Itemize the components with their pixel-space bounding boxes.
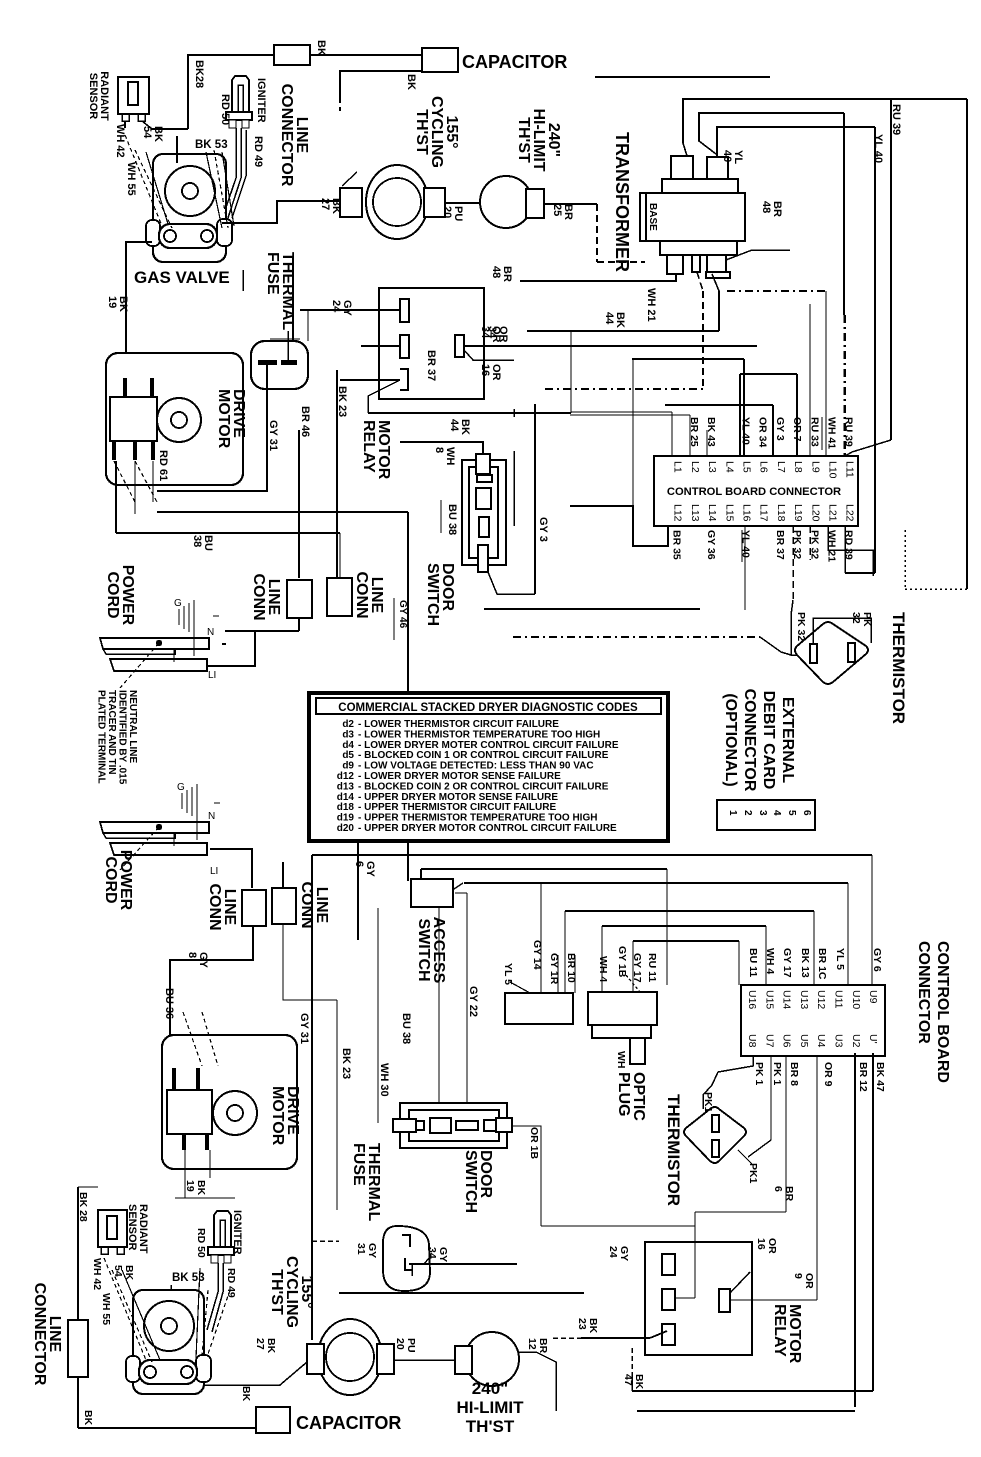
svg-text:BU 36: BU 36: [163, 988, 175, 1019]
svg-text:L2: L2: [689, 461, 701, 473]
svg-text:YL40: YL40: [721, 150, 744, 164]
svg-text:CAPACITOR: CAPACITOR: [296, 1413, 401, 1433]
svg-text:WH: WH: [615, 1051, 627, 1069]
svg-text:BR 1C: BR 1C: [816, 948, 828, 980]
svg-text:- BLOCKED COIN 2 OR CONTROL CI: - BLOCKED COIN 2 OR CONTROL CIRCUIT FAIL…: [358, 781, 609, 792]
svg-text:U16: U16: [746, 990, 758, 1009]
svg-text:MOTORRELAY: MOTORRELAY: [360, 420, 392, 480]
svg-text:L16: L16: [741, 504, 753, 522]
svg-text:OPTICPLUG: OPTICPLUG: [615, 1072, 647, 1121]
svg-text:U8: U8: [746, 1034, 758, 1048]
svg-text:U4: U4: [815, 1034, 827, 1048]
svg-text:- LOWER THERMISTOR TEMPERATURE: - LOWER THERMISTOR TEMPERATURE TOO HIGH: [358, 729, 600, 740]
svg-text:TH'ST: TH'ST: [466, 1417, 515, 1436]
svg-text:GAS VALVE: GAS VALVE: [134, 268, 230, 287]
svg-text:4: 4: [771, 810, 782, 816]
svg-text:BU 38: BU 38: [400, 1013, 412, 1044]
svg-text:PK 32: PK 32: [795, 612, 807, 641]
svg-text:L22: L22: [844, 504, 856, 522]
svg-text:GY 3: GY 3: [774, 417, 786, 441]
svg-text:d4: d4: [342, 740, 354, 751]
svg-text:- LOWER DRYER MOTER CONTROL CI: - LOWER DRYER MOTER CONTROL CIRCUIT FAIL…: [358, 740, 619, 751]
svg-text:L15: L15: [723, 504, 735, 522]
svg-text:RD 61: RD 61: [157, 450, 169, 481]
svg-text:CONTROL BOARD CONNECTOR: CONTROL BOARD CONNECTOR: [667, 486, 841, 498]
svg-text:- UPPER THERMISTOR TEMPERATURE: - UPPER THERMISTOR TEMPERATURE TOO HIGH: [358, 813, 597, 824]
svg-text:- UPPER DRYER MOTOR CONTROL CI: - UPPER DRYER MOTOR CONTROL CIRCUIT FAIL…: [358, 823, 617, 834]
svg-text:- UPPER DRYER MOTOR SENSE FAIL: - UPPER DRYER MOTOR SENSE FAILURE: [358, 792, 558, 803]
svg-text:U9: U9: [867, 990, 879, 1004]
svg-text:U2: U2: [850, 1034, 862, 1048]
svg-text:d3: d3: [342, 729, 354, 740]
svg-text:U6: U6: [781, 1034, 793, 1048]
svg-text:BK: BK: [405, 74, 417, 90]
svg-text:d5: d5: [342, 750, 354, 761]
svg-text:L3: L3: [706, 461, 718, 473]
svg-text:- LOW VOLTAGE DETECTED: LESS T: - LOW VOLTAGE DETECTED: LESS THAN 90 VAC: [358, 761, 594, 772]
svg-text:U7: U7: [763, 1034, 775, 1048]
svg-text:LINECONN: LINECONN: [206, 883, 238, 930]
svg-text:GY 22: GY 22: [467, 986, 479, 1017]
svg-text:ACCESSSWITCH: ACCESSSWITCH: [415, 917, 447, 984]
svg-text:L9: L9: [809, 461, 821, 473]
svg-text:L20: L20: [809, 504, 821, 522]
svg-text:LINECONN: LINECONN: [298, 881, 330, 928]
svg-text:BK28: BK28: [193, 60, 205, 88]
svg-text:BK: BK: [240, 1386, 252, 1402]
svg-text:BR 8: BR 8: [788, 1062, 800, 1086]
svg-text:- LOWER THERMISTOR CIRCUIT FAI: - LOWER THERMISTOR CIRCUIT FAILURE: [358, 719, 559, 730]
svg-text:U15: U15: [763, 990, 775, 1009]
svg-text:L1: L1: [672, 461, 684, 473]
svg-text:U5: U5: [798, 1034, 810, 1048]
svg-text:d2: d2: [342, 719, 354, 730]
svg-text:IGNITER: IGNITER: [231, 1210, 243, 1255]
svg-text:G: G: [177, 782, 185, 793]
svg-text:BU 11: BU 11: [747, 948, 759, 977]
svg-text:BU 38: BU 38: [446, 504, 458, 535]
svg-text:WH 55: WH 55: [100, 1293, 112, 1325]
svg-text:L8: L8: [792, 461, 804, 473]
svg-text:3: 3: [757, 810, 768, 816]
svg-text:d19: d19: [337, 813, 355, 824]
svg-text:BR 46: BR 46: [299, 406, 311, 437]
svg-text:U14: U14: [781, 990, 793, 1009]
svg-text:THERMISTOR: THERMISTOR: [889, 612, 908, 724]
svg-text:U': U': [867, 1034, 879, 1044]
svg-text:GY 6: GY 6: [871, 948, 883, 972]
svg-text:LINECONN: LINECONN: [250, 573, 282, 620]
svg-text:d13: d13: [337, 781, 355, 792]
svg-text:240": 240": [472, 1379, 508, 1398]
svg-text:OR 9: OR 9: [822, 1062, 834, 1087]
svg-text:TRANSFORMER: TRANSFORMER: [612, 132, 632, 272]
svg-text:L4: L4: [723, 461, 735, 473]
svg-text:GY 3: GY 3: [537, 517, 549, 542]
svg-text:- UPPER THERMISTOR CIRCUIT FAI: - UPPER THERMISTOR CIRCUIT FAILURE: [358, 802, 556, 813]
svg-text:L12: L12: [672, 504, 684, 522]
svg-text:CAPACITOR: CAPACITOR: [462, 52, 567, 72]
svg-text:YL 5: YL 5: [502, 963, 514, 985]
svg-text:MOTORRELAY: MOTORRELAY: [771, 1304, 803, 1364]
svg-text:L17: L17: [758, 504, 770, 522]
svg-text:BK 13: BK 13: [799, 948, 811, 978]
svg-text:L14: L14: [706, 504, 718, 522]
svg-text:BK 47: BK 47: [874, 1062, 886, 1092]
svg-text:IGNITER: IGNITER: [255, 78, 267, 123]
svg-text:PK1: PK1: [747, 1163, 759, 1184]
svg-text:L10: L10: [827, 461, 839, 479]
svg-text:d18: d18: [337, 802, 355, 813]
svg-text:- LOWER DRYER MOTOR SENSE FAIL: - LOWER DRYER MOTOR SENSE FAILURE: [358, 771, 561, 782]
svg-text:- BLOCKED COIN 1 OR CONTROL CI: - BLOCKED COIN 1 OR CONTROL CIRCUIT FAIL…: [358, 750, 609, 761]
svg-text:GY 14: GY 14: [531, 940, 543, 970]
svg-text:6: 6: [801, 810, 812, 816]
svg-text:OR 34: OR 34: [757, 417, 769, 448]
svg-text:d12: d12: [337, 771, 355, 782]
svg-text:BK 23: BK 23: [340, 1048, 352, 1079]
svg-text:GY 31: GY 31: [298, 1013, 310, 1044]
svg-text:d14: d14: [337, 792, 355, 803]
svg-text:U3: U3: [833, 1034, 845, 1048]
svg-text:L11: L11: [844, 461, 856, 478]
svg-text:WH 42: WH 42: [91, 1258, 103, 1290]
svg-text:d9: d9: [342, 761, 354, 772]
svg-text:OR 1B: OR 1B: [528, 1127, 540, 1160]
svg-text:BR 35: BR 35: [671, 530, 683, 560]
svg-text:GY 17: GY 17: [781, 948, 793, 978]
svg-text:U13: U13: [798, 990, 810, 1009]
svg-text:WH 55: WH 55: [125, 162, 137, 196]
svg-text:PK 1: PK 1: [771, 1062, 783, 1086]
svg-text:WH 41: WH 41: [826, 417, 838, 449]
svg-text:HI-LIMIT: HI-LIMIT: [456, 1398, 524, 1417]
svg-text:BK: BK: [82, 1410, 94, 1426]
svg-text:WH 4: WH 4: [597, 956, 609, 982]
svg-text:RADIANTSENSOR: RADIANTSENSOR: [126, 1204, 149, 1254]
svg-text:RD 49: RD 49: [252, 136, 264, 167]
svg-text:L13: L13: [689, 504, 701, 522]
svg-text:L7: L7: [775, 461, 787, 473]
svg-text:POWERCORD: POWERCORD: [102, 850, 134, 911]
svg-text:L18: L18: [775, 504, 787, 522]
svg-text:RU 11: RU 11: [646, 953, 658, 982]
svg-text:PK 1: PK 1: [753, 1062, 765, 1086]
svg-text:L6: L6: [758, 461, 770, 473]
svg-text:1: 1: [727, 810, 738, 816]
svg-text:BK 53: BK 53: [195, 139, 228, 151]
svg-text:WH 21: WH 21: [645, 288, 657, 322]
svg-text:RD 50: RD 50: [195, 1228, 207, 1258]
svg-text:YL 40: YL 40: [740, 417, 752, 445]
svg-text:RD 50: RD 50: [219, 94, 231, 125]
svg-text:N: N: [208, 811, 215, 822]
svg-text:GY 1B: GY 1B: [616, 946, 628, 978]
svg-text:WH 4: WH 4: [764, 948, 776, 974]
svg-text:WH 42: WH 42: [114, 124, 126, 158]
svg-text:WH 30: WH 30: [378, 1063, 390, 1097]
svg-text:BR 37: BR 37: [425, 350, 437, 381]
svg-text:LINECONN: LINECONN: [353, 571, 385, 618]
svg-text:U12: U12: [815, 990, 827, 1009]
svg-text:L5: L5: [741, 461, 753, 473]
svg-text:BK 28: BK 28: [77, 1192, 89, 1222]
svg-text:N: N: [207, 627, 214, 638]
svg-text:BK: BK: [315, 40, 327, 56]
svg-text:G: G: [174, 598, 182, 609]
svg-text:LI: LI: [210, 866, 218, 877]
svg-text:U11: U11: [833, 990, 845, 1009]
svg-text:RU 39: RU 39: [890, 104, 902, 135]
svg-text:BR 37: BR 37: [774, 530, 786, 560]
svg-text:GY 31: GY 31: [267, 420, 279, 451]
svg-text:COMMERCIAL STACKED DRYER DIAGN: COMMERCIAL STACKED DRYER DIAGNOSTIC CODE…: [338, 702, 638, 714]
svg-text:2: 2: [742, 810, 753, 816]
svg-text:POWERCORD: POWERCORD: [104, 565, 136, 626]
svg-text:BR 12: BR 12: [857, 1062, 869, 1092]
svg-text:L21: L21: [827, 504, 839, 522]
svg-text:L19: L19: [792, 504, 804, 522]
svg-text:U10: U10: [850, 990, 862, 1009]
svg-text:5: 5: [786, 810, 797, 816]
svg-text:GY 17: GY 17: [631, 953, 643, 983]
svg-text:GY 36: GY 36: [705, 530, 717, 560]
svg-text:RD 49: RD 49: [225, 1268, 237, 1298]
svg-text:d20: d20: [337, 823, 355, 834]
svg-text:RADIANTSENSOR: RADIANTSENSOR: [87, 71, 110, 121]
svg-text:YL 40: YL 40: [872, 134, 884, 163]
svg-text:GY 46: GY 46: [397, 600, 408, 629]
svg-text:BASE: BASE: [647, 203, 658, 231]
svg-text:LI: LI: [208, 670, 216, 681]
svg-text:YL 5: YL 5: [834, 948, 846, 970]
svg-text:THERMISTOR: THERMISTOR: [664, 1094, 683, 1206]
